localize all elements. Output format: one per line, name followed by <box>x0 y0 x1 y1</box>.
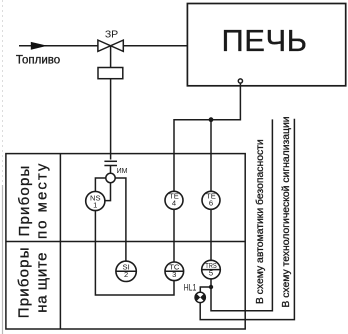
svg-text:Топливо: Топливо <box>16 55 60 67</box>
svg-text:6: 6 <box>209 199 213 208</box>
svg-text:5: 5 <box>209 269 213 278</box>
svg-text:4: 4 <box>172 199 176 208</box>
svg-text:Приборы: Приборы <box>16 246 33 318</box>
svg-text:Приборы: Приборы <box>16 165 33 237</box>
svg-text:В схему автоматики безопасност: В схему автоматики безопасности <box>254 139 266 304</box>
svg-text:ИМ: ИМ <box>117 168 128 175</box>
svg-text:ПЕЧЬ: ПЕЧЬ <box>222 23 308 58</box>
svg-text:2: 2 <box>124 270 128 279</box>
svg-text:по месту: по месту <box>34 162 51 239</box>
svg-text:3: 3 <box>172 270 176 279</box>
svg-text:В схему технологической сигнал: В схему технологической сигнализации <box>281 116 292 307</box>
svg-text:ЗР: ЗР <box>105 29 118 41</box>
svg-text:на щите: на щите <box>34 252 51 313</box>
svg-text:1: 1 <box>93 200 97 209</box>
svg-text:HL1: HL1 <box>184 283 197 293</box>
